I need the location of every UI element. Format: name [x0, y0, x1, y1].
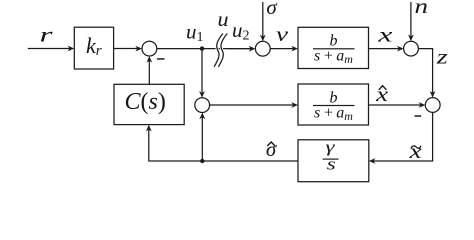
wire x to summing junction S3 — [369, 48, 400, 50]
svg-text:r: r — [40, 23, 54, 47]
svg-text:u: u — [218, 7, 229, 31]
arrowhead sigma into S-sigma top — [260, 35, 266, 42]
fraction bar adaptation — [323, 159, 339, 160]
node u1 junction dot — [200, 46, 204, 50]
svg-text:C(s): C(s) — [125, 89, 166, 115]
hat accent of x hat — [379, 86, 387, 90]
arrowhead n into S3 top — [408, 35, 414, 42]
wire sigmahat line gamma block to left corner — [149, 129, 298, 161]
break squiggle left — [214, 34, 223, 67]
tilde accent of x tilde — [411, 146, 421, 149]
wire xtilde from S4 down to gamma block — [373, 112, 433, 161]
label fraction gamma/s in adaptation box — [326, 139, 337, 173]
summing junction S-sigma — [255, 41, 270, 56]
label fraction b/(s+a_m) in predictor box — [314, 89, 353, 123]
svg-text:σ: σ — [266, 137, 278, 161]
minus sign at S1 — [157, 58, 165, 60]
wire nu to plant box — [270, 48, 294, 50]
wire r input — [28, 48, 70, 50]
arrowhead into C(s) bottom — [146, 125, 152, 132]
svg-text:x: x — [377, 23, 394, 47]
wire u1 line S1 to sigma junction — [157, 48, 252, 50]
svg-text:σ: σ — [266, 0, 278, 19]
block adaptation gamma/s — [298, 140, 369, 182]
block C(s) — [114, 84, 184, 124]
summing junction S4 — [425, 98, 440, 113]
summing junction S2 — [195, 98, 210, 113]
svg-text:x: x — [408, 139, 422, 163]
label fraction b/(s+a_m) in plant box — [314, 33, 353, 67]
fraction bar predictor — [313, 105, 355, 106]
svg-text:ν: ν — [276, 22, 289, 46]
break squiggle right — [218, 34, 227, 67]
block predictor b/(s+a_m) — [298, 84, 369, 125]
wire sigma input — [262, 2, 264, 38]
arrowhead into S1 — [135, 46, 142, 52]
arrowhead into gamma block right — [369, 158, 376, 164]
wire xhat to S4 — [369, 104, 422, 106]
arrowhead into S3 left — [397, 46, 404, 52]
wire n input — [410, 2, 412, 37]
hat accent of sigma hat — [267, 142, 275, 146]
arrowhead sigmahat into S2 bottom — [199, 113, 205, 120]
wire S2 to predictor box — [210, 104, 294, 106]
arrowhead z into S4 top — [430, 91, 436, 98]
svg-text:s: s — [327, 155, 337, 174]
node sigmahat junction dot — [200, 159, 204, 163]
block plant b/(s+a_m) — [298, 27, 369, 68]
wire u2 into sigma junction — [228, 48, 252, 50]
arrowhead into k_r — [68, 46, 75, 52]
arrowhead C(s) output into S1 bottom — [146, 56, 152, 63]
wire break gap — [214, 34, 227, 67]
summing junction S1 — [142, 41, 157, 56]
summing junction S3 — [404, 41, 419, 56]
wire sigmahat branch up to S2 — [201, 117, 203, 161]
minus sign at S4 — [415, 115, 422, 117]
svg-text:z: z — [435, 45, 447, 69]
arrowhead into predictor box — [291, 102, 298, 108]
wire u1 branch down to S2 — [201, 49, 203, 94]
arrowhead u1 branch into S2 top — [199, 91, 205, 98]
wire C(s) output up to S1 — [148, 60, 150, 84]
arrowhead xhat into S4 left — [419, 102, 426, 108]
svg-text:n: n — [415, 0, 429, 18]
arrowhead into plant box — [291, 46, 298, 52]
block k_r — [74, 27, 113, 69]
fraction bar plant — [313, 48, 355, 49]
wire z from S3 down to S4 — [418, 49, 432, 94]
wire k_r to summing junction S1 — [114, 48, 138, 50]
arrowhead into S-sigma left — [249, 46, 256, 52]
